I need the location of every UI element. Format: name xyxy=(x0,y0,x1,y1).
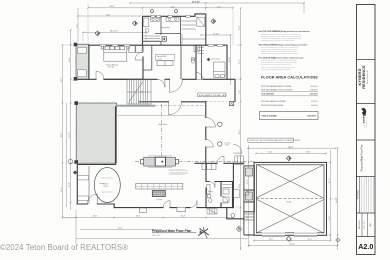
svg-text:FLOOR AREA CALCULATIONS: FLOOR AREA CALCULATIONS xyxy=(261,76,318,80)
svg-text:REVISIONS: REVISIONS xyxy=(357,190,359,199)
svg-text:1,278 SQ FT: 1,278 SQ FT xyxy=(310,89,318,91)
svg-text:1/4" = 1'-0": 1/4" = 1'-0" xyxy=(364,221,366,229)
svg-text:14'-6": 14'-6" xyxy=(93,216,98,218)
svg-text:Dining: Dining xyxy=(100,183,105,185)
svg-text:3,892 SQ FT: 3,892 SQ FT xyxy=(310,94,318,96)
svg-text:104 SQ FT: 104 SQ FT xyxy=(311,105,318,107)
svg-text:14'-6": 14'-6" xyxy=(106,14,111,16)
svg-text:RESIDENCE: RESIDENCE xyxy=(362,65,366,89)
svg-text:11'-5": 11'-5" xyxy=(247,215,249,220)
svg-text:15'-0": 15'-0" xyxy=(239,183,241,188)
svg-text:Teton County, WY: Teton County, WY xyxy=(366,69,369,84)
svg-text:5'-2": 5'-2" xyxy=(76,24,78,28)
svg-text:12'-8": 12'-8" xyxy=(118,228,123,230)
svg-text:11'-3": 11'-3" xyxy=(239,59,241,64)
svg-text:Porch: Porch xyxy=(225,145,229,147)
svg-text:20'-6": 20'-6" xyxy=(61,132,63,137)
svg-text:©2024 Teton Board of REALTORS®: ©2024 Teton Board of REALTORS® xyxy=(0,243,128,252)
svg-text:19'-11": 19'-11" xyxy=(69,132,71,138)
svg-text:19'-2": 19'-2" xyxy=(61,77,63,82)
svg-text:11'-5": 11'-5" xyxy=(269,239,274,241)
svg-text:1/4" = 1'-0": 1/4" = 1'-0" xyxy=(152,235,161,237)
svg-text:Proposed Main Floor Plan: Proposed Main Floor Plan xyxy=(361,144,364,171)
svg-text:24'-8": 24'-8" xyxy=(110,6,115,8)
svg-text:12'-5": 12'-5" xyxy=(239,25,241,30)
svg-text:24'-11": 24'-11" xyxy=(289,244,295,246)
svg-text:DN: DN xyxy=(141,92,143,94)
svg-text:Garage: Garage xyxy=(286,201,291,203)
svg-text:13'-4": 13'-4" xyxy=(181,216,186,218)
svg-text:10'-9": 10'-9" xyxy=(229,57,231,62)
svg-text:11'-10": 11'-10" xyxy=(213,33,219,35)
svg-text:12'-1": 12'-1" xyxy=(329,178,331,183)
svg-text:12'-0": 12'-0" xyxy=(306,152,311,154)
svg-text:24'-11": 24'-11" xyxy=(336,197,338,203)
svg-text:18'-4 1/2": 18'-4 1/2" xyxy=(110,31,118,33)
svg-text:+ Linen: + Linen xyxy=(157,58,162,60)
svg-text:12'-4": 12'-4" xyxy=(69,182,71,187)
svg-text:9'-10" clg: 9'-10" clg xyxy=(108,67,115,69)
svg-text:A2.0: A2.0 xyxy=(358,242,373,251)
svg-text:11'-5": 11'-5" xyxy=(329,215,331,220)
svg-text:2,614 SQ FT: 2,614 SQ FT xyxy=(310,86,318,88)
svg-text:9'-6": 9'-6" xyxy=(217,6,221,8)
svg-text:24'-11": 24'-11" xyxy=(288,146,294,148)
svg-text:20'-2": 20'-2" xyxy=(239,129,241,134)
svg-text:54'-3 1/2": 54'-3 1/2" xyxy=(192,1,200,3)
svg-text:11'-8": 11'-8" xyxy=(69,57,71,62)
svg-text:829 SQ FT: 829 SQ FT xyxy=(311,101,318,103)
svg-text:Proposed Main Floor Plan: Proposed Main Floor Plan xyxy=(152,229,191,233)
svg-text:12'-1": 12'-1" xyxy=(308,239,313,241)
svg-text:7'-6": 7'-6" xyxy=(239,90,241,94)
svg-text:13'-3": 13'-3" xyxy=(61,187,63,192)
svg-text:15'-1": 15'-1" xyxy=(136,216,141,218)
svg-text:11'-2": 11'-2" xyxy=(268,152,273,154)
svg-text:12'-1": 12'-1" xyxy=(247,179,249,184)
svg-text:Covered: Covered xyxy=(224,142,230,144)
svg-text:Primary Bedroom: Primary Bedroom xyxy=(106,64,119,66)
svg-text:14'-2": 14'-2" xyxy=(171,6,176,8)
